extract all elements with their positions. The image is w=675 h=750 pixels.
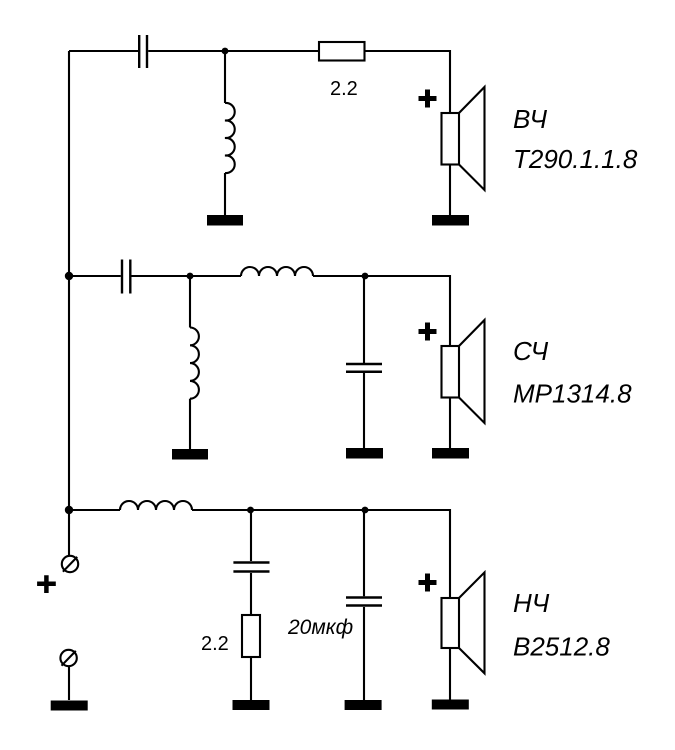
ground under C4 [346, 448, 383, 459]
node D junction dot [362, 273, 369, 280]
node A junction dot [222, 48, 229, 55]
plus sign BA1 [419, 90, 437, 108]
speaker BA3 [442, 572, 485, 699]
node F junction dot [247, 507, 254, 514]
ground under BA2 [432, 448, 469, 459]
node B junction dot (left rail row2) [65, 272, 73, 280]
resistor R2 [242, 615, 260, 657]
svg-text:20мкф: 20мкф [287, 616, 353, 639]
inductor L2 [190, 276, 199, 449]
svg-text:T290.1.1.8: T290.1.1.8 [513, 144, 638, 174]
node E junction dot (left rail row3) [65, 506, 73, 514]
wire node F to node G [251, 509, 366, 511]
svg-text:СЧ: СЧ [513, 336, 549, 366]
ground under L2 [172, 449, 208, 460]
speaker BA2 [442, 320, 485, 448]
node C junction dot [187, 273, 194, 280]
capacitor C2 [122, 260, 130, 294]
wire R2 to ground [250, 657, 252, 700]
capacitor C6 shunt [346, 510, 382, 700]
ground under L1 [207, 215, 243, 226]
wire node E to L4 [69, 509, 120, 511]
capacitor C1 [139, 35, 147, 68]
wire C1 to node A [148, 50, 225, 52]
wire node A to resistor R1 [225, 50, 319, 52]
svg-text:НЧ: НЧ [513, 588, 550, 618]
svg-text:2.2: 2.2 [201, 633, 229, 655]
terminal XT1 input [62, 556, 78, 572]
capacitor C5 [233, 510, 269, 615]
inductor L1 [225, 51, 235, 215]
wire L4 to node F [192, 509, 251, 511]
terminal XT2 input [60, 650, 76, 666]
ground under BA1 [432, 215, 469, 226]
wire R1 to speaker BA1 [365, 51, 451, 113]
capacitor C4 shunt [346, 276, 382, 448]
inductor L3 [241, 267, 313, 276]
wire left input rail [68, 51, 70, 555]
svg-text:B2512.8: B2512.8 [513, 632, 610, 662]
ground under R2 [233, 700, 270, 710]
wire C2 to node C [132, 275, 191, 277]
speaker BA1 [442, 87, 485, 215]
wire node D to speaker BA2 [365, 276, 450, 346]
wire XT2 to ground [68, 666, 70, 700]
wire node G to speaker BA3 [365, 510, 450, 598]
wire node C to L3 [190, 275, 241, 277]
svg-text:MP1314.8: MP1314.8 [513, 379, 632, 409]
plus sign BA3 [419, 574, 437, 592]
wire L3 to node D [313, 275, 365, 277]
svg-text:2.2: 2.2 [330, 78, 358, 100]
wire node B to C2 [69, 275, 121, 277]
svg-text:ВЧ: ВЧ [513, 104, 547, 134]
inductor L4 [120, 501, 192, 510]
node G junction dot [362, 507, 369, 514]
ground under C6 [345, 700, 382, 710]
ground under XT2 [51, 701, 88, 711]
ground under BA3 [432, 700, 469, 710]
plus sign input [37, 575, 56, 593]
wire top rail row1 left segment [69, 50, 138, 52]
plus sign BA2 [419, 323, 437, 341]
resistor R1 [319, 42, 365, 61]
